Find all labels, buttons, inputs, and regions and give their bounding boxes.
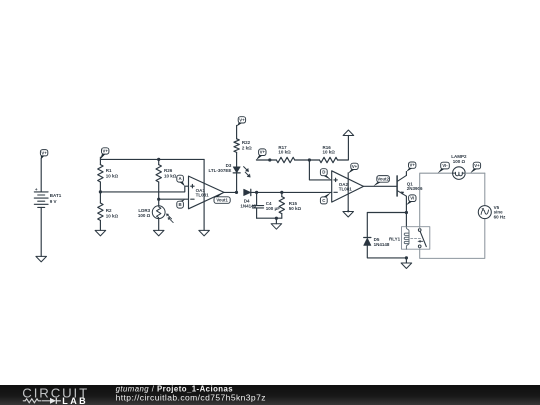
net flag VI- xyxy=(441,162,450,169)
svg-text:V+: V+ xyxy=(239,117,245,122)
net flag V+ (R17) xyxy=(259,149,266,156)
svg-text:B: B xyxy=(179,202,182,207)
svg-text:LAMP2: LAMP2 xyxy=(451,154,467,159)
wire top rail xyxy=(100,158,204,160)
wire C4 bottom xyxy=(256,208,258,218)
capacitor C4 xyxy=(252,205,263,207)
node junction relay ground xyxy=(405,256,408,259)
svg-text:TL081: TL081 xyxy=(196,193,210,198)
resistor R26 xyxy=(156,165,161,182)
svg-text:100 Ω: 100 Ω xyxy=(453,159,466,164)
node junction R17/R16 xyxy=(308,158,311,161)
node junction R15 top xyxy=(280,191,283,194)
svg-text:R2: R2 xyxy=(106,208,112,213)
AC source V5 xyxy=(478,206,491,219)
net flag V+ (Q1) xyxy=(409,162,416,168)
ground (OA2 V-) xyxy=(343,212,354,218)
net flag Vout2 xyxy=(377,176,390,183)
svg-text:2 kΩ: 2 kΩ xyxy=(242,145,252,150)
svg-text:D: D xyxy=(322,170,325,175)
svg-text:100 Ω: 100 Ω xyxy=(138,213,151,218)
svg-text:LAB: LAB xyxy=(62,396,88,405)
wire battery bottom xyxy=(40,207,42,256)
svg-text:V+: V+ xyxy=(103,148,109,153)
resistor R1 xyxy=(98,165,103,182)
wire OA2 output xyxy=(364,185,397,187)
wire relay switch up xyxy=(420,173,453,228)
ground (OA1 V-) xyxy=(199,230,210,236)
node junction D3/output row xyxy=(235,191,238,194)
wire battery top xyxy=(40,158,42,192)
svg-text:V+: V+ xyxy=(410,163,416,168)
battery BAT1 xyxy=(34,187,48,207)
node junction D4/C4 xyxy=(255,191,258,194)
wire R26 top xyxy=(158,159,160,164)
ground (R2) xyxy=(95,230,106,236)
svg-text:50 kΩ: 50 kΩ xyxy=(289,206,302,211)
svg-text:BAT1: BAT1 xyxy=(50,193,62,198)
svg-text:RLY1: RLY1 xyxy=(389,236,401,241)
wire LDR3 bottom xyxy=(158,219,160,231)
wire D5 bottom xyxy=(367,245,406,258)
node junction ground rail xyxy=(275,217,278,220)
svg-text:Vout1: Vout1 xyxy=(216,198,228,203)
wire R2 bottom xyxy=(99,220,101,230)
wire LDR3 top xyxy=(158,199,160,206)
wire main row xyxy=(251,191,332,193)
node flag C xyxy=(320,197,327,204)
svg-text:V+: V+ xyxy=(352,164,358,169)
wire C4 top xyxy=(256,192,258,205)
wire R1-R2 junction to op-amp xyxy=(100,186,188,192)
wire OA1 supply xyxy=(203,159,205,230)
resistor R17 xyxy=(276,157,294,162)
wire V+ to R17 xyxy=(256,159,276,161)
node junction R1/R2 xyxy=(99,190,102,193)
svg-text:R26: R26 xyxy=(164,168,173,173)
LED D3 xyxy=(233,167,250,178)
wire R2 top xyxy=(99,192,101,203)
svg-text:10 kΩ: 10 kΩ xyxy=(278,150,291,155)
svg-text:V+: V+ xyxy=(41,150,47,155)
lamp LAMP2 xyxy=(453,167,466,180)
diode D4 xyxy=(244,189,251,195)
net flag V+ (OA2) xyxy=(351,163,358,169)
wire R15 top xyxy=(281,192,283,196)
svg-text:Vout2: Vout2 xyxy=(377,176,389,181)
wire ground stem xyxy=(275,218,277,224)
resistor R2 xyxy=(98,203,103,220)
wire R17-R16 xyxy=(295,159,320,161)
transistor Q1 xyxy=(397,172,406,197)
wire D5 top xyxy=(367,213,406,238)
node junction collector/D5 xyxy=(405,211,408,214)
wire junction to OA2 + xyxy=(309,160,331,180)
ground (LDR3) xyxy=(153,230,164,236)
svg-text:10 kΩ: 10 kΩ xyxy=(106,213,119,218)
svg-text:D5: D5 xyxy=(374,237,380,242)
wire D3 bottom xyxy=(236,173,238,193)
ground (R16, rotated) xyxy=(343,130,354,136)
wire R15 bottom xyxy=(281,214,283,219)
node flag A xyxy=(177,175,184,182)
svg-text:10 kΩ: 10 kΩ xyxy=(164,173,177,178)
node flag D xyxy=(320,169,327,176)
wire relay ground stem xyxy=(405,258,407,263)
svg-text:10 kΩ: 10 kΩ xyxy=(106,173,119,178)
net flag V+ (divider) xyxy=(102,148,109,154)
wire to inverting input OA1 xyxy=(159,198,189,200)
svg-text:9 V: 9 V xyxy=(50,199,57,204)
wire R22 to D3 xyxy=(236,152,238,167)
svg-text:http://circuitlab.com/cd757h5k: http://circuitlab.com/cd757h5kn3p7z xyxy=(116,393,266,403)
photoresistor LDR3 xyxy=(152,206,173,223)
ground (battery) xyxy=(36,256,47,262)
wire R1 bottom xyxy=(99,182,101,192)
net flag Vout1 xyxy=(214,197,230,204)
svg-text:1N4148: 1N4148 xyxy=(374,242,390,247)
svg-text:V+: V+ xyxy=(474,163,480,168)
svg-text:+: + xyxy=(35,187,38,192)
logo resistor-diode glyph xyxy=(23,399,42,403)
svg-text:VI: VI xyxy=(410,196,414,201)
svg-text:R22: R22 xyxy=(242,140,251,145)
svg-text:10 kΩ: 10 kΩ xyxy=(323,150,336,155)
wire R26 bottom xyxy=(158,182,160,199)
footer bar xyxy=(0,385,540,405)
svg-text:R1: R1 xyxy=(106,168,112,173)
wire R22 top xyxy=(236,125,238,138)
resistor R22 xyxy=(234,139,239,153)
net flag V+ (lamp) xyxy=(473,162,480,169)
op-amp OA1 xyxy=(189,176,225,209)
svg-text:LTL-307EE: LTL-307EE xyxy=(208,168,231,173)
relay actuation arrow xyxy=(419,240,422,242)
diode D5 xyxy=(364,237,371,239)
wire Q1 collector xyxy=(405,196,407,227)
wire bottom rail C4/R15 xyxy=(257,217,282,219)
node dot OA2 supply xyxy=(347,210,349,212)
net flag VI xyxy=(409,195,416,202)
node junction R26/LDR3 xyxy=(157,198,160,201)
ground (relay) xyxy=(401,263,412,269)
svg-text:60 Hz: 60 Hz xyxy=(494,214,507,219)
node junction rail/R26 xyxy=(157,158,160,161)
wire lamp right xyxy=(465,172,485,174)
relay RLY1 xyxy=(402,227,430,250)
node dot R17 left xyxy=(268,158,271,161)
svg-text:100 μF: 100 μF xyxy=(266,206,281,211)
relay switch contacts xyxy=(418,229,421,232)
net flag V+ (R22) xyxy=(238,117,245,123)
svg-text:VI-: VI- xyxy=(442,163,448,168)
wire R16 to ground flag xyxy=(338,136,349,161)
op-amp OA2 xyxy=(332,171,364,202)
resistor R16 xyxy=(320,157,338,162)
wire OA2 supply xyxy=(347,173,349,212)
wire V+ rail xyxy=(99,157,101,164)
ground (C4/R15) xyxy=(271,224,282,230)
wire relay switch down xyxy=(420,219,485,259)
node flag B xyxy=(177,201,184,208)
svg-text:TL081: TL081 xyxy=(339,186,353,191)
wire OA1 output xyxy=(224,191,237,193)
net flag V+ (battery) xyxy=(40,150,47,156)
svg-text:V+: V+ xyxy=(260,150,266,155)
relay switch lever xyxy=(420,232,426,247)
svg-text:2N3906: 2N3906 xyxy=(407,186,423,191)
resistor R15 xyxy=(279,197,284,214)
